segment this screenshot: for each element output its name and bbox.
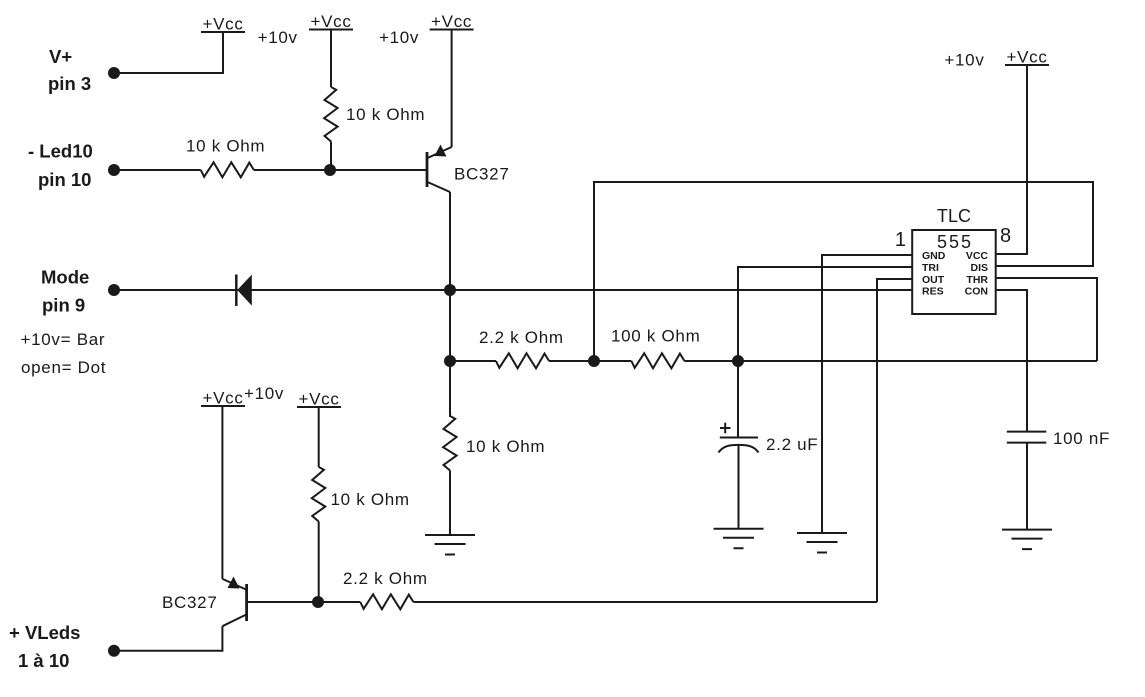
resistor R2 10 k Ohm (vertical, top) bbox=[324, 87, 338, 142]
svg-text:DIS: DIS bbox=[970, 262, 988, 274]
svg-text:+Vcc: +Vcc bbox=[202, 389, 243, 408]
wire GND pin to ground bbox=[822, 255, 912, 533]
svg-text:pin 9: pin 9 bbox=[42, 295, 85, 316]
wire C1 to ground bbox=[738, 445, 740, 529]
wire Vcc to R7 bbox=[318, 407, 320, 467]
svg-text:10 k Ohm: 10 k Ohm bbox=[466, 437, 545, 456]
wire R7 to node E bbox=[318, 522, 320, 603]
node E (base junction) bbox=[312, 596, 324, 608]
svg-text:GND: GND bbox=[922, 250, 946, 262]
svg-text:CON: CON bbox=[965, 286, 988, 298]
svg-text:10 k Ohm: 10 k Ohm bbox=[331, 490, 410, 509]
svg-text:TLC: TLC bbox=[937, 206, 971, 226]
svg-text:100 k Ohm: 100 k Ohm bbox=[611, 327, 700, 346]
wire Q2 emitter down bbox=[114, 626, 222, 651]
svg-text:TRI: TRI bbox=[922, 262, 939, 274]
svg-text:100 nF: 100 nF bbox=[1053, 429, 1110, 448]
diode D1 bbox=[236, 275, 252, 307]
svg-text:+10v: +10v bbox=[379, 28, 419, 47]
svg-text:+Vcc: +Vcc bbox=[310, 12, 351, 31]
resistor R7 10 k Ohm (vertical, bottom) bbox=[312, 467, 326, 522]
svg-text:10 k Ohm: 10 k Ohm bbox=[346, 105, 425, 124]
svg-text:Mode: Mode bbox=[41, 267, 89, 288]
ground (below R5) bbox=[425, 535, 475, 555]
wire V+ to Vcc stem bbox=[114, 32, 223, 73]
svg-text:2.2 k Ohm: 2.2 k Ohm bbox=[479, 328, 564, 347]
resistor R3 2.2 k Ohm bbox=[496, 353, 549, 368]
svg-text:2.2 k Ohm: 2.2 k Ohm bbox=[343, 569, 428, 588]
wire node E to R6 bbox=[319, 601, 361, 603]
wire TRI pin to node D bbox=[738, 267, 912, 361]
node Led10 bbox=[108, 164, 120, 176]
wire THR pin to y361 row bbox=[996, 278, 1097, 361]
svg-text:RES: RES bbox=[922, 286, 944, 298]
wire DIS loop (node C up and over to pin DIS) bbox=[594, 182, 1093, 361]
ground (C2) bbox=[1002, 530, 1052, 550]
svg-text:+Vcc: +Vcc bbox=[1006, 48, 1047, 67]
svg-text:+10v: +10v bbox=[944, 51, 984, 70]
svg-text:+Vcc: +Vcc bbox=[431, 12, 472, 31]
ground (GND pin) bbox=[797, 533, 847, 553]
wire R4 to THR corner bbox=[685, 360, 1098, 362]
svg-text:2.2 uF: 2.2 uF bbox=[766, 435, 818, 454]
svg-text:pin 3: pin 3 bbox=[48, 73, 91, 94]
svg-text:+Vcc: +Vcc bbox=[202, 15, 243, 34]
node C (2.2k/100k junction) bbox=[588, 355, 600, 367]
capacitor C2 100 nF bbox=[1007, 429, 1110, 448]
wire Q2 base to node E bbox=[247, 601, 319, 603]
svg-text:+10v: +10v bbox=[258, 28, 298, 47]
wire node D to C1 bbox=[737, 361, 739, 438]
op-amp U1 TLC 555 box bbox=[912, 230, 996, 314]
wire Led10 to R1 bbox=[114, 169, 201, 171]
svg-text:pin 10: pin 10 bbox=[38, 169, 91, 190]
svg-text:1: 1 bbox=[895, 229, 906, 251]
svg-text:+Vcc: +Vcc bbox=[298, 390, 339, 409]
node D (100k/cap junction) bbox=[732, 355, 744, 367]
node Mode-collector junction bbox=[444, 284, 456, 296]
svg-text:BC327: BC327 bbox=[454, 165, 509, 184]
capacitor C1 2.2 uF (polarized) bbox=[719, 423, 819, 454]
wire Vcc to R2 bbox=[330, 30, 332, 88]
wire Vcc to Q1 emitter bbox=[451, 30, 453, 148]
wire R3 to node C bbox=[549, 360, 631, 362]
wire Q1 collector down bbox=[449, 192, 451, 417]
svg-text:555: 555 bbox=[937, 232, 973, 252]
svg-text:BC327: BC327 bbox=[162, 593, 217, 612]
wire Vcc to Q2 bbox=[221, 406, 223, 579]
wire Mode row to IC RES bbox=[114, 289, 912, 291]
node VLeds bbox=[108, 645, 120, 657]
wire OUT pin down to R6 row bbox=[877, 279, 912, 602]
svg-text:V+: V+ bbox=[49, 46, 72, 67]
node R3 left bbox=[444, 355, 456, 367]
node V+ bbox=[108, 67, 120, 79]
wire R6 to OUT vertical bbox=[413, 601, 877, 603]
transistor Q1 BC327 bbox=[427, 145, 509, 193]
svg-text:+10v= Bar: +10v= Bar bbox=[21, 330, 106, 349]
svg-text:VCC: VCC bbox=[966, 250, 989, 262]
resistor R6 2.2 k Ohm (bottom) bbox=[360, 594, 413, 609]
svg-text:THR: THR bbox=[966, 274, 988, 286]
ground (C1) bbox=[714, 529, 764, 549]
svg-text:8: 8 bbox=[1000, 225, 1011, 247]
wire R1 to Q1 base bbox=[254, 169, 426, 171]
wire R2 to node B1 bbox=[330, 142, 332, 171]
wire VCC pin to +Vcc bbox=[996, 65, 1027, 254]
pin labels right bbox=[965, 250, 989, 298]
transistor Q2 BC327 bbox=[162, 577, 247, 627]
resistor R5 10 k Ohm (vertical, mid) bbox=[449, 361, 451, 416]
wire C2 to ground bbox=[1026, 443, 1028, 530]
pin labels left bbox=[922, 250, 946, 298]
wire node to R3 bbox=[450, 360, 496, 362]
svg-text:- Led10: - Led10 bbox=[28, 141, 93, 162]
svg-text:open= Dot: open= Dot bbox=[21, 358, 106, 377]
node Mode bbox=[108, 284, 120, 296]
svg-text:+10v: +10v bbox=[244, 384, 284, 403]
svg-text:OUT: OUT bbox=[922, 274, 945, 286]
resistor R4 100 k Ohm bbox=[631, 353, 684, 368]
svg-text:1 à 10: 1 à 10 bbox=[18, 650, 69, 671]
svg-text:10 k Ohm: 10 k Ohm bbox=[186, 137, 265, 156]
wire CON pin down to C2 bbox=[996, 290, 1027, 432]
svg-text:+ VLeds: + VLeds bbox=[9, 622, 80, 643]
node B1 junction bbox=[324, 164, 336, 176]
resistor R1 10 k Ohm (horizontal) bbox=[201, 162, 254, 177]
